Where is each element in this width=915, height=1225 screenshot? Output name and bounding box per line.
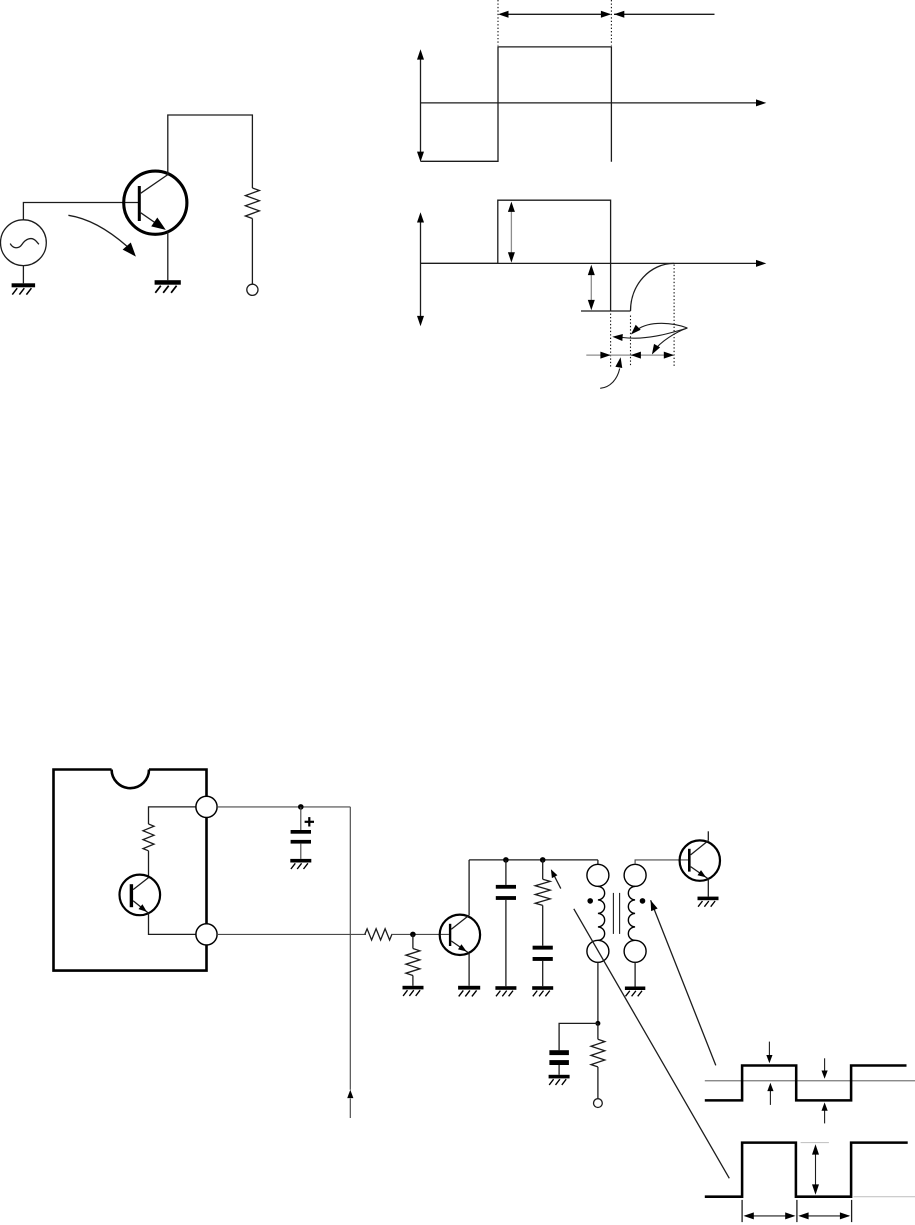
ground C4 bbox=[549, 1075, 570, 1079]
waveform2 vertical axis bbox=[420, 215, 422, 323]
dimension line storage recovery bbox=[586, 354, 674, 356]
transformer primary bottom terminal bbox=[587, 940, 609, 962]
dotted line ts start bbox=[610, 314, 612, 367]
callout curve to ts start bbox=[623, 328, 688, 338]
wire secondary top to T3 base bbox=[635, 860, 688, 864]
arrow down to high level bbox=[768, 1042, 770, 1060]
ground C2 bbox=[495, 986, 516, 990]
curved arrow signal flow bbox=[68, 215, 126, 246]
waveform4 high extension line bbox=[801, 1142, 829, 1144]
transformer primary top terminal bbox=[587, 864, 609, 886]
wire node to R3 bbox=[412, 934, 414, 948]
callout curve from below bbox=[600, 369, 620, 389]
wire source top to base bbox=[23, 203, 138, 220]
junction dot supply bbox=[298, 804, 304, 810]
waveform2 pulse bbox=[421, 200, 611, 311]
amplitude double arrow bbox=[815, 1149, 817, 1190]
Q1 base bar bbox=[138, 186, 141, 221]
collector rail wire bbox=[469, 859, 598, 861]
pin 1 circle bbox=[196, 796, 217, 817]
wire R4 to C3 bbox=[542, 905, 544, 945]
output terminal circle bbox=[594, 1099, 603, 1108]
wire node to C1 bbox=[300, 807, 302, 830]
waveform4 low extension line bbox=[854, 1196, 915, 1198]
waveform1 vertical axis bbox=[420, 52, 422, 159]
wire to C2 bbox=[505, 860, 507, 885]
internal Q collector line bbox=[133, 878, 148, 890]
dotted line ts end bbox=[630, 316, 632, 367]
ground R3 bbox=[403, 986, 424, 990]
wire to R4 bbox=[542, 860, 544, 879]
amplitude arrow negative bbox=[590, 269, 592, 305]
transformer secondary winding bbox=[628, 886, 635, 940]
resistor R2 series bbox=[365, 929, 392, 940]
leader line secondary to waveform3 with arrow bbox=[651, 900, 716, 1065]
wire primary bottom down bbox=[597, 962, 599, 1023]
capacitor C1 plates bbox=[291, 830, 311, 834]
ground secondary bbox=[625, 987, 645, 991]
wire C2 to ground bbox=[505, 900, 507, 986]
T3 emitter line with arrow bbox=[691, 867, 709, 879]
transistor T3 bbox=[680, 840, 720, 880]
wire node to R5 bbox=[597, 1023, 599, 1039]
wire R1 to terminal bbox=[251, 219, 253, 285]
transformer secondary bottom terminal bbox=[624, 940, 646, 962]
wire pin2 to resistor R2 bbox=[217, 933, 366, 935]
extension tick 2 bbox=[796, 1200, 798, 1222]
T2 collector wire up bbox=[468, 860, 470, 915]
resistor R5 bbox=[591, 1039, 605, 1067]
ground C3 bbox=[532, 986, 553, 990]
Q1 emitter wire down bbox=[167, 232, 169, 281]
transformer secondary top terminal bbox=[624, 864, 646, 886]
junction dot bottom node bbox=[595, 1021, 600, 1026]
resistor R1 bbox=[245, 188, 259, 219]
ground T2 bbox=[458, 986, 480, 990]
junction dot R4 bbox=[540, 857, 546, 863]
dotted line recovery end bbox=[673, 265, 675, 367]
arrow down to axis right bbox=[824, 1058, 826, 1075]
wire C3 to ground bbox=[542, 961, 544, 986]
transistor Q1 bbox=[124, 171, 187, 234]
wire R2 to base node bbox=[391, 933, 449, 935]
internal Q emitter line with arrow bbox=[133, 901, 149, 914]
leader line primary to waveform4 bbox=[574, 909, 730, 1179]
wire source bottom bbox=[22, 266, 24, 284]
waveform3 square wave bbox=[705, 1066, 907, 1101]
resistor R3 bbox=[406, 949, 420, 976]
ground C1 bbox=[290, 859, 311, 863]
T2 emitter wire down bbox=[468, 953, 470, 986]
extension tick 1 bbox=[741, 1200, 743, 1222]
pin 2 circle bbox=[196, 924, 217, 945]
Q1 collector wire up bbox=[168, 115, 253, 188]
T3 collector stub up bbox=[707, 831, 709, 840]
R4 adjust arrow bbox=[553, 873, 561, 889]
waveform2 horizontal axis bbox=[421, 262, 759, 264]
waveform1 horizontal axis bbox=[421, 102, 759, 104]
waveform3 axis line bbox=[705, 1080, 915, 1082]
capacitor C2 plates bbox=[496, 885, 516, 889]
resistor R4 variable bbox=[535, 879, 550, 905]
period dimension arrow left bbox=[745, 1215, 794, 1217]
internal wire resistor to collector bbox=[148, 851, 150, 878]
ground Q1 emitter bbox=[155, 280, 181, 285]
internal Q base bar bbox=[130, 884, 133, 907]
terminal open circle bbox=[247, 284, 258, 295]
wire C1 to ground bbox=[300, 844, 302, 859]
dotted line pulse start bbox=[497, 0, 499, 46]
internal wire pin1 to resistor bbox=[149, 807, 197, 824]
junction dot base node bbox=[410, 932, 416, 938]
internal transistor Q bbox=[120, 875, 161, 916]
callout curve to ts end bbox=[638, 323, 688, 329]
period dimension arrow right bbox=[800, 1215, 849, 1217]
wire node to C4 bbox=[559, 1023, 598, 1050]
wire R5 to output terminal bbox=[597, 1067, 599, 1099]
primary phase dot bbox=[587, 898, 593, 904]
callout curve to recovery span bbox=[654, 328, 688, 351]
transformer primary winding bbox=[598, 886, 605, 940]
T2 collector line bbox=[451, 915, 469, 929]
wire R3 to ground bbox=[412, 976, 414, 986]
T2 base bar bbox=[449, 924, 451, 946]
amplitude arrow positive bbox=[510, 206, 512, 257]
T3 base bar bbox=[688, 849, 691, 872]
T3 emitter wire down bbox=[707, 879, 709, 897]
wire supply down with arrow bbox=[349, 807, 351, 1090]
capacitor C3 plates bbox=[533, 946, 553, 950]
ground source bbox=[12, 283, 35, 287]
capacitor C4 plates bbox=[549, 1050, 569, 1055]
internal resistor bbox=[143, 824, 154, 851]
T2 emitter line with arrow bbox=[451, 941, 468, 953]
transformer core bbox=[612, 893, 614, 934]
wire secondary bottom to ground bbox=[634, 962, 636, 986]
dotted line pulse end bbox=[610, 0, 612, 46]
internal emitter wire to pin2 bbox=[149, 913, 197, 934]
junction dot C2 bbox=[503, 857, 509, 863]
Q1 collector line bbox=[141, 175, 168, 194]
transistor T2 bbox=[440, 915, 480, 955]
extension tick 3 bbox=[851, 1200, 853, 1222]
waveform2 negative level bbox=[581, 310, 631, 312]
dimension line right segment bbox=[614, 13, 715, 15]
waveform1 square wave bbox=[421, 47, 612, 162]
capacitor C1 electrolytic plus bbox=[305, 821, 314, 823]
AC source VG1 bbox=[1, 220, 47, 266]
arrow up to low level bbox=[824, 1106, 826, 1124]
wire rail to primary bbox=[597, 860, 599, 864]
secondary phase dot bbox=[640, 898, 646, 904]
dimension arrow pulse width bbox=[500, 13, 610, 15]
wire pin1 to supply node bbox=[217, 806, 350, 808]
IC U1 outline with notch bbox=[54, 770, 207, 971]
ground T3 bbox=[698, 897, 719, 901]
Q1 emitter line with arrow bbox=[141, 213, 162, 227]
wire C4 to ground bbox=[558, 1065, 560, 1075]
T3 collector line bbox=[691, 841, 709, 855]
waveform4 square wave bbox=[705, 1143, 908, 1197]
arrow up to axis bbox=[769, 1086, 771, 1105]
waveform2 recovery curve bbox=[631, 263, 675, 311]
